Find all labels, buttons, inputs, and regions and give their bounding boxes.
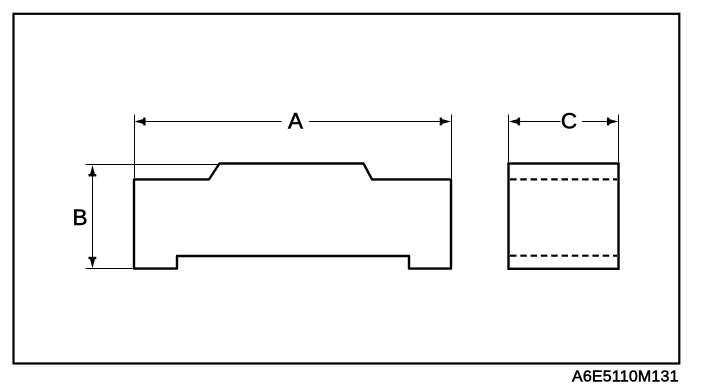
B arrow bottom xyxy=(89,257,97,268)
part end view rectangle xyxy=(509,164,619,269)
B arrow top xyxy=(89,165,97,176)
svg-text:A: A xyxy=(288,108,303,133)
dimension C line xyxy=(515,121,561,123)
dimension B extension lines xyxy=(86,164,221,166)
A arrow right xyxy=(440,118,451,126)
dimension A extension lines xyxy=(134,115,136,179)
hidden line upper xyxy=(510,178,617,180)
dimension C extension lines xyxy=(508,115,510,163)
svg-text:B: B xyxy=(72,205,87,230)
hidden line lower xyxy=(510,255,617,257)
svg-text:C: C xyxy=(561,108,577,133)
C arrow left xyxy=(509,118,520,126)
dimension A line xyxy=(141,121,282,123)
part profile (side view) xyxy=(134,164,451,269)
dimension B line xyxy=(92,170,94,263)
C arrow right xyxy=(607,118,618,126)
svg-text:A6E5110M131: A6E5110M131 xyxy=(572,369,679,386)
A arrow left xyxy=(134,118,145,126)
